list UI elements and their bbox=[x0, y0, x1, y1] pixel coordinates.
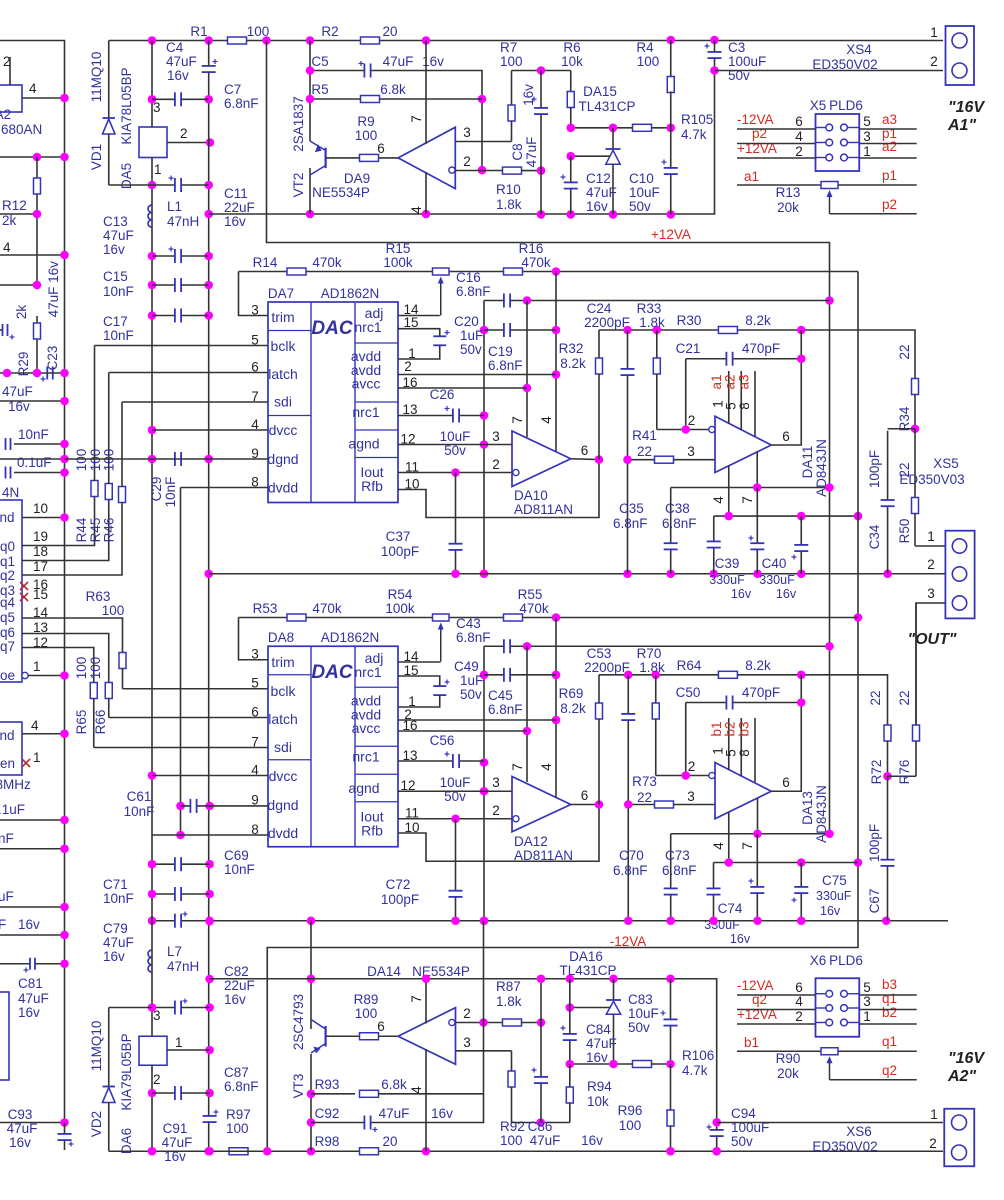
wire y472 left bbox=[14, 472, 65, 474]
label 4 da8 bbox=[251, 763, 259, 778]
label q1 bbox=[0, 554, 15, 569]
label 1 da7 bbox=[408, 346, 416, 361]
connector X5 pins bbox=[816, 139, 860, 146]
svg-text:R41: R41 bbox=[632, 428, 657, 443]
label 10nF c69 bbox=[224, 862, 255, 877]
junction y472 bbox=[60, 468, 69, 477]
junction x484 bbox=[480, 569, 489, 578]
label 2 da8 bbox=[404, 707, 412, 722]
junction bottom rail bbox=[666, 1147, 675, 1156]
svg-text:47nH: 47nH bbox=[167, 214, 199, 229]
svg-text:47uF: 47uF bbox=[103, 935, 134, 950]
label DA16 bbox=[569, 949, 603, 964]
label a1 rot bbox=[709, 374, 724, 389]
resistor R94 bbox=[566, 1064, 573, 1123]
label 6.8nF c7 bbox=[224, 96, 259, 111]
label C74 bbox=[718, 901, 743, 916]
junction R55 bbox=[552, 613, 561, 622]
junction top rail bbox=[710, 36, 719, 45]
svg-text:C17: C17 bbox=[103, 314, 128, 329]
wire DA11 pin1 bbox=[728, 371, 730, 424]
svg-text:C87: C87 bbox=[224, 1065, 249, 1080]
svg-text:q5: q5 bbox=[0, 610, 15, 625]
label 16v c84 bbox=[586, 1050, 608, 1065]
svg-text:C11: C11 bbox=[224, 186, 248, 201]
label C79 bbox=[103, 921, 128, 936]
label VD1 rot bbox=[89, 144, 104, 170]
svg-text:DA8: DA8 bbox=[268, 630, 294, 645]
svg-text:16v: 16v bbox=[18, 1005, 40, 1020]
label 7 da10 rot bbox=[510, 416, 525, 424]
capacitor C79 bbox=[175, 912, 188, 928]
svg-text:4: 4 bbox=[795, 994, 803, 1009]
label 2SC4793 rot bbox=[291, 994, 306, 1050]
label 2 DA5 bbox=[180, 126, 188, 141]
wire VT2 column c bbox=[309, 168, 311, 214]
label X6 bbox=[810, 953, 827, 968]
label 50v c26 bbox=[444, 443, 466, 458]
wire DA11 pin7 bbox=[756, 452, 758, 488]
label pin4b bbox=[3, 240, 11, 255]
wire x527 bbox=[526, 301, 528, 438]
svg-text:KIA78L05BP: KIA78L05BP bbox=[119, 67, 134, 144]
wire y459 left bbox=[0, 458, 65, 460]
svg-text:C72: C72 bbox=[386, 877, 411, 892]
junction pin4 bbox=[60, 94, 69, 103]
label R66 bbox=[93, 710, 108, 735]
label 100 r89 bbox=[355, 1006, 378, 1021]
junction gnd rail B bbox=[148, 916, 157, 925]
label R34 rot bbox=[897, 406, 912, 431]
label 100 R46 bbox=[102, 449, 117, 472]
label 16v c75 bbox=[820, 904, 841, 918]
label 20 r98 bbox=[382, 1134, 397, 1149]
wire DA14 pin2 bbox=[455, 1022, 505, 1024]
label 2 da11 bbox=[688, 413, 696, 428]
svg-text:"OUT": "OUT" bbox=[908, 631, 957, 648]
resistor R105 bbox=[633, 124, 652, 131]
svg-text:2200pF: 2200pF bbox=[584, 660, 630, 675]
label C17 bbox=[103, 314, 128, 329]
svg-text:50v: 50v bbox=[629, 199, 651, 214]
label 3 da13 bbox=[687, 789, 695, 804]
svg-text:ED350V03: ED350V03 bbox=[899, 472, 964, 487]
svg-text:4: 4 bbox=[711, 496, 726, 504]
wire +12VA rail bbox=[267, 41, 830, 301]
wire x556 bbox=[555, 272, 557, 453]
svg-text:8.2k: 8.2k bbox=[560, 701, 586, 716]
label 2 da12 bbox=[492, 803, 500, 818]
svg-text:3: 3 bbox=[863, 994, 871, 1009]
label 6.8k r93 bbox=[381, 1077, 407, 1092]
label q1 r90 bbox=[882, 1034, 897, 1049]
junction C50 out bbox=[797, 698, 806, 707]
svg-text:R33: R33 bbox=[637, 301, 662, 316]
svg-text:47uF: 47uF bbox=[162, 1135, 193, 1150]
svg-text:4.7k: 4.7k bbox=[682, 1063, 708, 1078]
label en bbox=[0, 756, 15, 771]
wire DA14 pin7 bbox=[425, 979, 427, 1024]
label 16V A1 quote bbox=[948, 99, 985, 116]
label 13 bbox=[33, 620, 48, 635]
label 3 da8 bbox=[251, 647, 259, 662]
label 50v c94 bbox=[731, 1134, 753, 1149]
wire trim chain bbox=[239, 271, 859, 273]
label 4N bbox=[2, 485, 19, 500]
svg-text:trim: trim bbox=[271, 309, 294, 325]
junction anode DA16 bbox=[566, 1003, 575, 1012]
label 6 x6 bbox=[795, 980, 803, 995]
label 4 da12 rot bbox=[539, 763, 554, 771]
junction x484 bbox=[480, 326, 489, 335]
svg-text:R63: R63 bbox=[86, 589, 111, 604]
capacitor C10 bbox=[662, 128, 678, 215]
svg-text:q2: q2 bbox=[882, 1063, 897, 1078]
wire dgnd DA7 bbox=[65, 458, 269, 460]
resistor R33 bbox=[653, 330, 660, 430]
resistor R50 bbox=[912, 429, 919, 546]
wire gnd y978 bbox=[210, 979, 717, 1123]
svg-text:7: 7 bbox=[251, 389, 259, 404]
transistor VT2 bbox=[310, 141, 326, 175]
label R64 bbox=[677, 658, 702, 673]
label 10 da8 bbox=[404, 820, 419, 835]
svg-text:10nF: 10nF bbox=[18, 427, 49, 442]
junction gnd spine bbox=[205, 890, 214, 899]
junction bottom rail bbox=[205, 1147, 214, 1156]
label VD2 rot bbox=[89, 1111, 104, 1137]
svg-text:nrc1: nrc1 bbox=[354, 319, 381, 335]
svg-text:C7: C7 bbox=[224, 82, 241, 97]
label C3 bbox=[728, 40, 745, 55]
label 330uF c39 bbox=[709, 573, 745, 587]
label ED350V02 b bbox=[812, 1139, 877, 1154]
capacitor C45 bbox=[504, 668, 510, 682]
resistor R53 bbox=[287, 614, 306, 621]
connector X6 box bbox=[816, 978, 860, 1037]
label 22uF c82 bbox=[224, 978, 255, 993]
svg-text:1: 1 bbox=[175, 1035, 183, 1050]
svg-text:5: 5 bbox=[251, 333, 259, 348]
svg-text:sdi: sdi bbox=[274, 394, 292, 410]
label 16v c93 bbox=[9, 1135, 31, 1150]
label 11MQ10 rot b bbox=[89, 1021, 104, 1072]
label 470k r14 bbox=[312, 255, 342, 270]
label 10 bbox=[33, 501, 48, 516]
svg-text:19: 19 bbox=[33, 529, 48, 544]
svg-text:q6: q6 bbox=[0, 625, 15, 640]
svg-text:6.8nF: 6.8nF bbox=[224, 96, 259, 111]
wire x484 lower bbox=[483, 646, 485, 921]
svg-text:1: 1 bbox=[154, 162, 162, 177]
svg-text:C23: C23 bbox=[45, 346, 60, 371]
label 6.8nF c45 bbox=[488, 702, 523, 717]
label 47nH l7 bbox=[167, 959, 199, 974]
wire C19 bbox=[484, 329, 556, 331]
svg-text:16v: 16v bbox=[730, 932, 751, 946]
svg-text:7: 7 bbox=[251, 735, 259, 750]
label dvdd da8 bbox=[268, 825, 298, 841]
label dvcc da8 bbox=[269, 768, 298, 784]
capacitor C87 bbox=[175, 1086, 181, 1100]
svg-text:latch: latch bbox=[268, 711, 298, 727]
svg-text:470k: 470k bbox=[521, 255, 551, 270]
svg-text:NE5534P: NE5534P bbox=[412, 964, 470, 979]
wire DA11 pin2 bbox=[657, 429, 709, 431]
wire ref DA16 bbox=[570, 1063, 671, 1065]
wire C21 bbox=[685, 359, 687, 430]
wire DA10 out bbox=[571, 458, 599, 461]
IC DA8 box bbox=[268, 646, 398, 847]
svg-text:10nF: 10nF bbox=[224, 862, 255, 877]
resistor R65 bbox=[90, 683, 97, 748]
svg-text:10nF: 10nF bbox=[103, 891, 134, 906]
label 100 r9 bbox=[355, 128, 378, 143]
svg-text:8.2k: 8.2k bbox=[745, 313, 771, 328]
junction R30 line bbox=[623, 326, 632, 335]
label R9 bbox=[357, 114, 374, 129]
label C53 bbox=[587, 646, 612, 661]
capacitor C49 bbox=[433, 680, 449, 696]
label AD843JN rot bbox=[814, 439, 829, 497]
junction gnd spine bbox=[205, 802, 214, 811]
wire dvdd vertical bbox=[180, 488, 182, 836]
svg-text:6.8nF: 6.8nF bbox=[224, 1079, 259, 1094]
label C43 bbox=[456, 616, 481, 631]
junction +12 DA11 bbox=[825, 483, 834, 492]
svg-text:R89: R89 bbox=[354, 992, 379, 1007]
label 470k r55 bbox=[519, 601, 549, 616]
capacitor C83 bbox=[661, 979, 678, 1064]
wire base VT3 bbox=[326, 1035, 360, 1037]
label 13 da8 bbox=[402, 748, 417, 763]
capacitor C29 bbox=[175, 452, 181, 466]
label 7 da11 rot bbox=[740, 496, 755, 504]
label 1 da8 bbox=[408, 694, 416, 709]
wire y907 bbox=[0, 906, 65, 908]
label R76 rot bbox=[897, 760, 912, 785]
capacitor C24 bbox=[621, 330, 635, 574]
label 470pF c50 bbox=[742, 685, 780, 700]
svg-text:DAC: DAC bbox=[311, 662, 352, 683]
svg-text:.1uF: .1uF bbox=[0, 802, 25, 817]
label DAC da8 bbox=[311, 662, 352, 683]
label PLD6 b bbox=[829, 953, 863, 968]
label 16v c11 bbox=[224, 214, 246, 229]
svg-text:4: 4 bbox=[3, 240, 11, 255]
wire R32 top bbox=[599, 330, 915, 381]
capacitor C61 bbox=[190, 799, 196, 813]
svg-text:avcc: avcc bbox=[352, 720, 381, 736]
wire y1122 left bbox=[0, 1122, 65, 1124]
resistor R10 bbox=[503, 167, 542, 174]
label 1 rot da13 bbox=[711, 747, 726, 755]
svg-text:VT2: VT2 bbox=[291, 173, 306, 198]
wire +12VA vertical bbox=[829, 301, 831, 834]
label 10nF c71 bbox=[103, 891, 134, 906]
wire adj pin14 B bbox=[398, 661, 440, 664]
svg-text:C24: C24 bbox=[587, 301, 612, 316]
svg-text:3: 3 bbox=[687, 789, 695, 804]
label R32 bbox=[559, 341, 584, 356]
junction top rail bbox=[306, 36, 315, 45]
label uF bbox=[0, 889, 14, 904]
label 100pF c72 bbox=[381, 892, 419, 907]
svg-text:DA2: DA2 bbox=[0, 107, 11, 122]
junction VT3 bbox=[307, 974, 316, 983]
svg-text:C34: C34 bbox=[867, 524, 882, 549]
label 6.8nF c43 bbox=[456, 630, 491, 645]
junction gnd rail A bbox=[753, 569, 762, 578]
svg-text:1: 1 bbox=[930, 1107, 938, 1122]
wire b1 R90 bbox=[737, 1050, 917, 1052]
label 100 R44 bbox=[74, 449, 89, 472]
svg-text:50v: 50v bbox=[731, 1134, 753, 1149]
svg-text:R53: R53 bbox=[253, 601, 278, 616]
label dgnd da8 bbox=[267, 797, 298, 813]
svg-text:10nF: 10nF bbox=[163, 477, 178, 508]
capacitor C94 bbox=[707, 1123, 724, 1152]
resistor R29 bbox=[34, 316, 41, 373]
junction -12VA vert bbox=[854, 613, 863, 622]
svg-text:VD1: VD1 bbox=[89, 144, 104, 170]
svg-text:20: 20 bbox=[382, 24, 397, 39]
svg-text:1.8k: 1.8k bbox=[496, 197, 522, 212]
label C81 bbox=[18, 976, 43, 991]
label latch da7 bbox=[268, 366, 298, 382]
svg-text:ED350V02: ED350V02 bbox=[812, 57, 877, 72]
svg-text:15: 15 bbox=[33, 587, 48, 602]
label 16v rot bbox=[46, 261, 61, 283]
wire C43 bbox=[484, 645, 830, 647]
wire bclk DA8 bbox=[123, 688, 269, 690]
wire dvcc DA8 bbox=[152, 775, 268, 777]
label 3 da12 bbox=[492, 775, 500, 790]
label C8 rot bbox=[510, 143, 525, 160]
junction Iout B bbox=[451, 814, 460, 823]
junction gnd spine bbox=[205, 1003, 214, 1012]
label 1 x5 bbox=[863, 144, 871, 159]
svg-text:3: 3 bbox=[463, 1035, 471, 1050]
svg-text:6: 6 bbox=[377, 141, 385, 156]
label 10uF c56 bbox=[440, 775, 471, 790]
svg-text:47uF: 47uF bbox=[524, 137, 539, 168]
wire x5 p2 bbox=[737, 157, 816, 159]
regulator DA5 KIA78L05BP box bbox=[139, 127, 167, 158]
wire x6 p3 bbox=[859, 1009, 917, 1011]
svg-text:C5: C5 bbox=[311, 54, 328, 69]
capacitor C74 bbox=[749, 834, 765, 921]
label C39 bbox=[715, 556, 740, 571]
svg-text:C10: C10 bbox=[629, 171, 654, 186]
label 14 da8 bbox=[403, 649, 419, 664]
label 330uF c74 bbox=[704, 918, 740, 932]
label 18 bbox=[33, 544, 48, 559]
wire Iout B bbox=[398, 818, 513, 820]
svg-text:2k: 2k bbox=[14, 305, 29, 320]
svg-text:22: 22 bbox=[637, 444, 652, 459]
label 9 da7 bbox=[251, 446, 259, 461]
svg-text:L1: L1 bbox=[167, 199, 182, 214]
junction gnd rail B bbox=[480, 916, 489, 925]
label 8.2k r32 bbox=[560, 356, 586, 371]
junction x484 bbox=[480, 440, 489, 449]
svg-text:47uF: 47uF bbox=[383, 54, 414, 69]
junction gnd spine bbox=[204, 569, 213, 578]
label 2 xs5 bbox=[927, 557, 935, 572]
label C15 bbox=[103, 269, 128, 284]
svg-text:16v: 16v bbox=[18, 917, 40, 932]
svg-text:2SC4793: 2SC4793 bbox=[291, 994, 306, 1050]
label C11 bbox=[224, 186, 248, 201]
label R63 bbox=[86, 589, 111, 604]
label pin3 DA5 bbox=[153, 100, 161, 115]
label 10nF c29 rot bbox=[163, 477, 178, 508]
svg-text:2: 2 bbox=[492, 457, 500, 472]
svg-text:1.8k: 1.8k bbox=[639, 660, 665, 675]
svg-text:16v: 16v bbox=[586, 1050, 608, 1065]
junction gnd rail B bbox=[709, 916, 718, 925]
svg-text:nrc1: nrc1 bbox=[354, 664, 381, 680]
label adj da8 r bbox=[365, 650, 384, 666]
junction y907 bbox=[60, 903, 69, 912]
junction gnd rail B bbox=[666, 916, 675, 925]
junction C3 bbox=[710, 66, 719, 75]
capacitor C39 bbox=[749, 488, 765, 574]
label 3 x5 bbox=[863, 129, 871, 144]
svg-text:16v: 16v bbox=[103, 949, 125, 964]
junction x152 bottom bbox=[148, 860, 157, 869]
junction C16 bbox=[523, 296, 532, 305]
label 47uF c92 bbox=[379, 1106, 410, 1121]
label nF bbox=[0, 831, 14, 846]
wire dvdd DA8 bbox=[152, 834, 268, 836]
label C12 bbox=[586, 171, 611, 186]
wire q1 to R45 bbox=[22, 499, 109, 561]
label 16v c82 bbox=[224, 992, 246, 1007]
label 100 r1 bbox=[247, 24, 270, 39]
label 88MHz bbox=[0, 777, 31, 792]
label -12VA b bbox=[610, 934, 647, 949]
wire C45 bbox=[484, 674, 556, 676]
junction DA10 out bbox=[595, 455, 604, 464]
label 47uF c91 bbox=[162, 1135, 193, 1150]
svg-text:1.8k: 1.8k bbox=[639, 315, 665, 330]
svg-text:a2: a2 bbox=[882, 139, 897, 154]
label R46 bbox=[102, 518, 117, 543]
svg-text:dgnd: dgnd bbox=[267, 797, 298, 813]
svg-text:470pF: 470pF bbox=[742, 685, 780, 700]
svg-text:R9: R9 bbox=[357, 114, 374, 129]
label a3 rot bbox=[737, 374, 752, 389]
label C20 bbox=[454, 314, 479, 329]
svg-text:2200pF: 2200pF bbox=[584, 315, 630, 330]
label 8.2k r64 bbox=[745, 658, 771, 673]
svg-text:2SA1837: 2SA1837 bbox=[291, 96, 306, 152]
label 7 rot bbox=[409, 115, 424, 123]
junction gnd y214 bbox=[666, 210, 675, 219]
svg-text:C43: C43 bbox=[456, 616, 481, 631]
svg-text:8: 8 bbox=[737, 402, 752, 410]
capacitor C71 bbox=[175, 887, 181, 901]
wire R73 bbox=[628, 804, 654, 806]
wire x6 p5 bbox=[859, 994, 917, 996]
wire x5 p6 bbox=[737, 128, 816, 130]
wire base VT2 bbox=[326, 157, 360, 159]
svg-text:C13: C13 bbox=[103, 214, 128, 229]
label 12 da7 bbox=[400, 432, 415, 447]
junction top rail bbox=[148, 36, 157, 45]
